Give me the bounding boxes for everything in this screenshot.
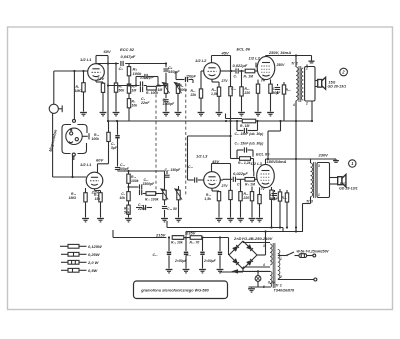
- svg-text:34mA: 34mA: [276, 159, 287, 164]
- svg-text:1/2 L3: 1/2 L3: [196, 154, 208, 159]
- svg-text:50µF: 50µF: [273, 91, 282, 95]
- svg-text:1MΩ: 1MΩ: [75, 89, 83, 93]
- svg-text:235V: 235V: [185, 231, 196, 236]
- svg-text:R₂₉ 10k: R₂₉ 10k: [171, 241, 184, 245]
- svg-text:1M: 1M: [132, 89, 137, 93]
- svg-text:2: 2: [305, 102, 308, 106]
- svg-text:220: 220: [244, 91, 251, 95]
- svg-text:2: 2: [305, 67, 308, 71]
- svg-text:45V: 45V: [221, 51, 229, 56]
- svg-text:1,5k: 1,5k: [204, 197, 212, 201]
- svg-text:100k: 100k: [91, 137, 100, 141]
- svg-text:3300pF: 3300pF: [143, 182, 156, 186]
- svg-text:5µF: 5µF: [111, 146, 118, 150]
- svg-text:Tr 1: Tr 1: [275, 284, 282, 288]
- svg-text:7V: 7V: [261, 187, 266, 191]
- svg-text:2: 2: [279, 275, 282, 279]
- svg-text:C₁₁: C₁₁: [231, 87, 237, 91]
- svg-text:2,0 W: 2,0 W: [87, 260, 100, 265]
- svg-text:100k: 100k: [131, 179, 140, 183]
- svg-text:1: 1: [318, 193, 320, 197]
- svg-text:6,3V: 6,3V: [268, 281, 276, 285]
- svg-text:27V: 27V: [221, 79, 229, 83]
- svg-text:150pF: 150pF: [168, 69, 180, 74]
- svg-text:7V: 7V: [261, 79, 266, 83]
- svg-text:220: 220: [243, 196, 250, 200]
- svg-text:4: 4: [262, 263, 265, 267]
- svg-text:22nF: 22nF: [137, 207, 147, 211]
- svg-text:1500pF: 1500pF: [163, 102, 176, 106]
- svg-text:50µF: 50µF: [270, 197, 279, 201]
- svg-text:W-5a-T-0,25mA/250V: W-5a-T-0,25mA/250V: [297, 250, 330, 254]
- svg-text:27V: 27V: [221, 184, 229, 188]
- svg-text:60V: 60V: [104, 49, 111, 54]
- svg-text:22V: 22V: [96, 76, 104, 81]
- svg-text:1: 1: [280, 257, 282, 261]
- svg-text:1/2 L3: 1/2 L3: [251, 161, 263, 166]
- svg-text:ECC 82: ECC 82: [120, 47, 135, 52]
- svg-text:1/2 L2: 1/2 L2: [249, 56, 261, 61]
- svg-text:2×50µF: 2×50µF: [174, 259, 188, 263]
- svg-text:GD 28-13/1: GD 28-13/1: [339, 187, 358, 191]
- svg-text:2×50µF: 2×50µF: [203, 259, 217, 263]
- svg-text:22nF: 22nF: [140, 101, 150, 105]
- svg-text:5: 5: [263, 285, 265, 289]
- svg-text:R₃₀ 70: R₃₀ 70: [190, 241, 200, 245]
- svg-text:15Ω: 15Ω: [340, 182, 347, 186]
- svg-text:60V: 60V: [96, 158, 103, 163]
- svg-text:230V: 230V: [318, 153, 329, 158]
- svg-text:4: 4: [292, 103, 295, 107]
- svg-text:GD 28-13/1: GD 28-13/1: [328, 85, 347, 89]
- svg-text:R₇ 1M: R₇ 1M: [240, 124, 250, 128]
- svg-text:500pF: 500pF: [119, 167, 130, 171]
- svg-text:C₂₂: C₂₂: [152, 253, 158, 257]
- svg-text:1,5k: 1,5k: [211, 92, 219, 96]
- svg-text:0,125W: 0,125W: [88, 244, 103, 249]
- svg-text:R₂₇ 100k: R₂₇ 100k: [145, 198, 160, 202]
- svg-text:1MΩ: 1MΩ: [69, 196, 77, 200]
- svg-text:1M: 1M: [158, 88, 163, 92]
- svg-text:R₊ 1M: R₊ 1M: [245, 183, 255, 187]
- svg-text:2200pF: 2200pF: [139, 75, 154, 80]
- svg-text:0,25W: 0,25W: [88, 252, 101, 257]
- svg-text:3: 3: [263, 244, 265, 248]
- svg-text:gramofonu stereofonicznego WG: gramofonu stereofonicznego WG-580: [140, 289, 209, 293]
- svg-text:1/2 L2: 1/2 L2: [195, 58, 207, 63]
- svg-text:C₁: C₁: [119, 66, 124, 71]
- svg-text:0,047µF: 0,047µF: [121, 54, 136, 59]
- svg-text:1/2 L1: 1/2 L1: [80, 162, 92, 167]
- svg-text:C₊: C₊: [237, 183, 241, 187]
- svg-text:0,022µF: 0,022µF: [233, 63, 248, 68]
- svg-text:ECL 86: ECL 86: [256, 152, 270, 157]
- svg-text:R₁₄: R₁₄: [286, 88, 292, 92]
- svg-text:2×DYG-4B-250-240V: 2×DYG-4B-250-240V: [233, 236, 273, 241]
- svg-text:250V, 34mA: 250V, 34mA: [268, 50, 291, 55]
- svg-text:45V: 45V: [211, 159, 219, 164]
- svg-text:C₁₄ 50: C₁₄ 50: [167, 207, 177, 211]
- svg-text:R₆ 1M: R₆ 1M: [244, 75, 254, 79]
- svg-text:500k: 500k: [180, 88, 189, 92]
- svg-text:Tr 3: Tr 3: [306, 200, 314, 204]
- svg-text:C₁₃ 15nF (ub. 30µ): C₁₃ 15nF (ub. 30µ): [235, 142, 265, 146]
- svg-text:250V: 250V: [276, 63, 286, 67]
- svg-text:215V: 215V: [155, 233, 166, 238]
- svg-text:3: 3: [318, 164, 320, 168]
- svg-text:C₁₂ 15nF (ub. 30µ): C₁₂ 15nF (ub. 30µ): [235, 132, 265, 136]
- svg-text:C₁₆ 150pF: C₁₆ 150pF: [165, 168, 182, 172]
- svg-text:ECL 86: ECL 86: [237, 47, 251, 52]
- svg-text:C₁₀: C₁₀: [188, 165, 194, 169]
- svg-text:0,022µF: 0,022µF: [233, 171, 248, 176]
- svg-text:22k: 22k: [190, 93, 198, 97]
- svg-text:C₂₁: C₂₁: [186, 253, 192, 257]
- svg-text:150pF: 150pF: [186, 74, 197, 78]
- svg-text:R₂₄: R₂₄: [282, 196, 288, 200]
- svg-text:Tr 2: Tr 2: [291, 62, 299, 66]
- svg-text:0,5W: 0,5W: [88, 268, 99, 273]
- svg-text:1/2 L1: 1/2 L1: [80, 57, 92, 62]
- svg-text:TS40/26/878: TS40/26/878: [274, 289, 295, 293]
